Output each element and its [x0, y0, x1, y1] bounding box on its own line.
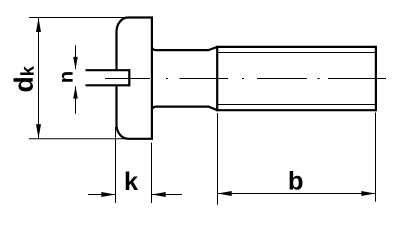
label dk (rotated) [14, 66, 34, 91]
n dimension leader lines [75, 45, 77, 113]
b dimension arrows [218, 191, 376, 196]
label k [126, 172, 138, 190]
b dimension line [218, 193, 376, 195]
shank upper edge with fillet and thread run-up chamfer [152, 47, 217, 50]
screw end face [375, 46, 377, 112]
thread start boundary line [216, 46, 218, 112]
dk extension lines [29, 18, 131, 139]
k extension lines [116, 127, 152, 203]
k dimension line tails [88, 194, 182, 196]
dk dimension arrows [36, 18, 41, 139]
b extension lines [218, 113, 376, 205]
dk dimension line [38, 18, 40, 139]
n dimension arrows [73, 57, 78, 99]
k dimension arrows [101, 192, 165, 197]
screw head outline (pan head, side view) [117, 16, 152, 139]
label n (rotated) [62, 72, 73, 82]
shank lower edge with fillet and thread run-up chamfer [152, 107, 217, 111]
head slot (drive slot, side view) [86, 69, 130, 86]
centerline (axis, dash-dot) [105, 78, 386, 80]
thread minor diameter lines [218, 53, 376, 105]
thread major diameter lines [217, 47, 376, 110]
label b [290, 171, 303, 190]
